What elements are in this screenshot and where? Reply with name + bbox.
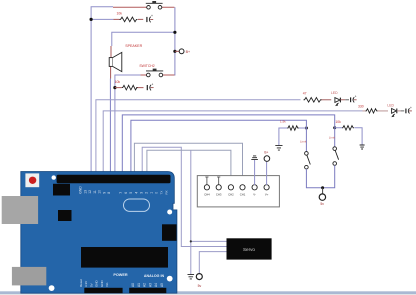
reset button — [25, 173, 39, 187]
wire: bottom rail joining limit switches — [306, 165, 334, 187]
wire: bus F (to servo middle pin) — [142, 147, 226, 246]
top pin labels group 1 — [79, 186, 112, 194]
svg-text:10: 10 — [98, 190, 102, 194]
svg-text:7: 7 — [119, 192, 123, 194]
power jack — [12, 267, 46, 286]
svg-text:+: + — [410, 106, 412, 110]
wire: speaker bottom down to header — [109, 79, 111, 174]
bottom headers — [84, 288, 122, 293]
svg-text:RX: RX — [165, 190, 169, 194]
svg-text:A5: A5 — [160, 283, 164, 287]
pin CH4 stub — [205, 177, 208, 185]
node B (junction at 174.9,32.3) — [173, 31, 176, 34]
resistor R4 330 — [358, 105, 388, 114]
LED D1 — [331, 91, 345, 105]
svg-text:3: 3 — [139, 192, 143, 194]
board body — [21, 172, 177, 294]
mounting hole right — [167, 210, 172, 215]
speaker SP1 — [109, 44, 142, 79]
top header — [57, 175, 171, 183]
svg-text:GND: GND — [95, 280, 99, 288]
svg-text:5v: 5v — [320, 202, 324, 206]
svg-text:10k: 10k — [117, 12, 123, 16]
node C (junction at 174.9,51.3) — [173, 50, 176, 53]
svg-text:9: 9 — [102, 192, 106, 194]
svg-text:5v: 5v — [198, 284, 202, 288]
wire: bus A (to 47 ohm / LED1) — [96, 100, 301, 173]
analog pin labels — [131, 283, 164, 287]
ground G1 (left of 1.5k) — [275, 146, 282, 151]
resistor R2 10k (row 2) — [115, 80, 144, 90]
mounting hole top — [52, 175, 56, 179]
wire: 10k resistor row 1 branch — [91, 18, 113, 20]
svg-text:Limit: Limit — [329, 136, 336, 140]
node F (junction at 306.4,128) — [305, 127, 308, 130]
svg-text:11: 11 — [93, 190, 97, 194]
node H (junction at 190.8,241.4) — [190, 240, 192, 242]
capacitor C2 (row 2) — [147, 82, 153, 90]
svg-text:10k: 10k — [115, 80, 121, 84]
capacitor C3 (after LED1) — [345, 95, 356, 103]
svg-text:0: 0 — [155, 192, 159, 194]
svg-text:Limit: Limit — [300, 139, 307, 143]
svg-text:12: 12 — [88, 190, 92, 194]
wire: bus C (to right 10k + limit switch) — [122, 115, 334, 173]
pushbutton switch SW1 — [145, 1, 175, 9]
node A (junction at x=91.1,y=19.4) — [90, 18, 93, 21]
svg-text:B+: B+ — [264, 150, 268, 154]
svg-text:A2: A2 — [143, 283, 147, 287]
capacitor C4 (after LED2) — [401, 106, 412, 114]
resistor R1 10k (row 1) — [114, 12, 144, 22]
svg-text:6: 6 — [124, 192, 128, 194]
wire: servo top pin / ground branch — [191, 150, 227, 274]
svg-text:+: + — [151, 14, 153, 18]
wire: bus E (to CH1) — [134, 143, 242, 185]
svg-text:LED: LED — [387, 103, 394, 107]
svg-text:ANALOG IN: ANALOG IN — [144, 274, 165, 278]
svg-text:Reset: Reset — [79, 279, 83, 287]
bottom window edge band — [0, 291, 416, 295]
svg-text:8: 8 — [107, 192, 111, 194]
svg-text:10k: 10k — [335, 120, 341, 124]
terminal 5v (below limit switches) — [319, 188, 325, 207]
ground G3 (above V- pin) — [251, 156, 258, 185]
svg-text:A4: A4 — [154, 283, 158, 287]
capacitor C1 (row 1) — [147, 14, 153, 22]
svg-text:GND: GND — [79, 186, 83, 194]
svg-text:CH3: CH3 — [216, 193, 222, 197]
svg-text:5V: 5V — [89, 283, 93, 287]
chip B — [58, 210, 72, 221]
svg-text:LED: LED — [331, 91, 338, 95]
svg-text:A1: A1 — [137, 283, 141, 287]
svg-text:330: 330 — [358, 105, 364, 109]
wire: right rail from switch1 down to SWITCH2 — [163, 7, 175, 75]
servo M1 — [227, 238, 272, 259]
mounting hole bottom right — [167, 276, 173, 282]
stadium outline — [124, 199, 150, 211]
wire: bus B (to 330 / LED2) — [103, 111, 362, 173]
svg-text:+: + — [355, 95, 357, 99]
svg-text:CH4: CH4 — [204, 193, 210, 197]
power pin labels — [79, 279, 109, 287]
Arduino board — [2, 172, 177, 294]
svg-text:TX: TX — [160, 191, 164, 195]
resistor R3 47 — [303, 92, 331, 103]
svg-text:B+: B+ — [186, 50, 191, 54]
svg-text:CH1: CH1 — [240, 193, 246, 197]
svg-text:1.5k: 1.5k — [280, 120, 286, 124]
svg-text:V+: V+ — [265, 193, 269, 197]
svg-text:A3: A3 — [148, 283, 152, 287]
svg-text:Servo: Servo — [243, 247, 255, 252]
LED D2 — [387, 103, 400, 116]
resistor R5 1.5k — [279, 120, 307, 146]
right edge header rect D — [162, 224, 177, 241]
svg-text:4: 4 — [134, 192, 138, 194]
mounting hole bottom left — [49, 285, 55, 291]
svg-text:+: + — [151, 82, 153, 86]
svg-text:5: 5 — [129, 192, 133, 194]
svg-text:POWER: POWER — [113, 273, 128, 277]
svg-text:A0: A0 — [131, 283, 135, 287]
terminal B+ top — [175, 49, 190, 54]
wire: SWITCH2 left to resistor row 2 node and down to header — [115, 75, 141, 173]
svg-text:CH2: CH2 — [228, 193, 234, 197]
pushbutton switch SW2 — [139, 64, 174, 77]
svg-text:2: 2 — [145, 192, 149, 194]
usb connector — [2, 196, 38, 224]
limit switch SW3 (left) — [300, 126, 310, 169]
wire: bus G (to CH2, servo top pin and ground) — [147, 150, 231, 185]
svg-text:3.3V: 3.3V — [84, 281, 88, 287]
ground G4 (servo) — [188, 275, 195, 279]
node G (junction at 322.6,187.7) — [321, 186, 324, 189]
resistor R6 10k (right) — [335, 120, 362, 145]
wire: branch to speaker top — [112, 32, 175, 46]
ground G2 (right of 10k) — [360, 145, 365, 149]
pin CH3 stub — [217, 177, 220, 185]
terminal B+ (above V+ pin) — [264, 150, 270, 185]
svg-text:1: 1 — [150, 192, 154, 194]
svg-text:SWITCH2: SWITCH2 — [139, 64, 154, 68]
svg-text:SPEAKER: SPEAKER — [125, 44, 142, 48]
svg-text:13: 13 — [84, 190, 88, 194]
connector block CN1 — [197, 176, 279, 207]
rect A (usb chip) — [53, 184, 70, 196]
wire + terminal 5v (servo supply) — [196, 252, 226, 288]
svg-text:GND: GND — [100, 280, 104, 288]
svg-text:V-: V- — [253, 193, 256, 197]
top pin labels group 2 — [119, 190, 169, 194]
wire: bus D (to 1.5k + limit switch) — [131, 120, 307, 173]
svg-text:47: 47 — [303, 92, 307, 96]
node E (junction at 334.7,127.8) — [333, 126, 336, 129]
svg-text:Vin: Vin — [105, 282, 109, 287]
DIP socket rect C — [81, 247, 168, 268]
limit switch SW4 (right) — [329, 126, 339, 165]
wire: digital pin to top pushbutton rail (vertical x=91 and top row) — [91, 7, 145, 173]
node D (junction at 114.9,87.6) — [113, 86, 116, 89]
